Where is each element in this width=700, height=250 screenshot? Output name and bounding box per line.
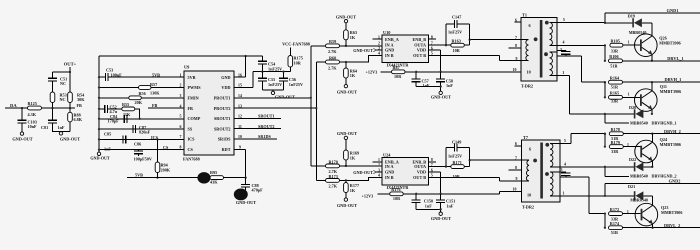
wire OUT B to T1 pin9 bbox=[429, 55, 521, 60]
wire U10 ENB_B stub bbox=[429, 38, 436, 40]
svg-text:10R: 10R bbox=[453, 174, 461, 179]
svg-text:1nF25V: 1nF25V bbox=[268, 82, 282, 87]
svg-text:C147: C147 bbox=[452, 15, 461, 20]
svg-text:GND-OUT: GND-OUT bbox=[275, 94, 295, 99]
svg-text:MBR0540: MBR0540 bbox=[630, 120, 648, 125]
svg-text:R95: R95 bbox=[210, 170, 217, 175]
svg-text:VDD: VDD bbox=[417, 170, 426, 175]
wire R55 branch row bbox=[99, 108, 105, 110]
svg-text:9: 9 bbox=[516, 57, 518, 61]
capacitor C57 bbox=[415, 72, 417, 79]
svg-text:10R: 10R bbox=[294, 61, 302, 66]
svg-text:51R: 51R bbox=[611, 84, 619, 89]
wire row1 5VB bbox=[99, 76, 105, 78]
svg-text:R163: R163 bbox=[452, 39, 461, 44]
svg-text:2: 2 bbox=[378, 41, 380, 45]
svg-text:4.3K: 4.3K bbox=[28, 112, 37, 117]
svg-text:VDD: VDD bbox=[417, 48, 426, 53]
wire pin4 to R106 bbox=[604, 45, 606, 60]
wire PROUT1 vertical bus bbox=[310, 46, 312, 166]
T7 primary winding bbox=[522, 159, 530, 161]
T1 secondary winding lower bbox=[550, 51, 558, 53]
wire Q23 emitter down bbox=[652, 224, 654, 228]
wire IN A row bbox=[311, 45, 382, 47]
wire row8 CS bbox=[99, 149, 184, 151]
resistor R55 bbox=[122, 107, 135, 111]
transistor Q26 bbox=[635, 34, 658, 57]
junction R164 feed bbox=[604, 81, 606, 83]
svg-text:D22: D22 bbox=[629, 157, 636, 162]
resistor R178 bbox=[604, 133, 606, 135]
svg-text:COMP: COMP bbox=[188, 116, 201, 121]
svg-text:9: 9 bbox=[516, 177, 518, 181]
svg-text:1nF: 1nF bbox=[446, 203, 453, 208]
svg-text:200K: 200K bbox=[161, 167, 171, 172]
wire R172/R174 tie bbox=[604, 214, 606, 228]
svg-text:GND-OUT: GND-OUT bbox=[353, 170, 373, 175]
svg-text:10R: 10R bbox=[394, 74, 402, 79]
svg-text:VDD: VDD bbox=[221, 85, 230, 90]
component R95 pad blob bbox=[197, 172, 210, 183]
svg-text:1nF: 1nF bbox=[446, 83, 453, 88]
svg-text:GND: GND bbox=[385, 170, 394, 175]
junction pin5/GND1 bbox=[604, 22, 606, 24]
svg-text:ICS: ICS bbox=[188, 137, 196, 142]
svg-text:FAN7688: FAN7688 bbox=[183, 157, 200, 162]
svg-text:6.8K: 6.8K bbox=[74, 117, 83, 122]
resistor R164 bbox=[609, 80, 623, 84]
svg-text:33R: 33R bbox=[611, 149, 619, 154]
svg-text:10: 10 bbox=[513, 68, 517, 72]
svg-text:NC: NC bbox=[60, 97, 66, 102]
svg-text:R164: R164 bbox=[610, 76, 620, 81]
svg-text:C86: C86 bbox=[134, 142, 141, 147]
svg-text:2.7K: 2.7K bbox=[328, 49, 337, 54]
resistor R64 bbox=[345, 61, 347, 63]
svg-text:R57: R57 bbox=[150, 82, 157, 87]
svg-text:51R: 51R bbox=[611, 230, 619, 235]
svg-text:MMBT3906: MMBT3906 bbox=[659, 41, 680, 46]
resistor R179 bbox=[609, 145, 623, 149]
svg-text:GND-OUT: GND-OUT bbox=[90, 156, 110, 161]
resistor R170 bbox=[326, 164, 340, 168]
svg-text:33R: 33R bbox=[611, 48, 619, 53]
svg-text:R125: R125 bbox=[28, 101, 37, 106]
resistor R176 bbox=[378, 193, 390, 195]
wire top ground run to pin16 bbox=[99, 55, 262, 57]
svg-text:R178: R178 bbox=[611, 127, 620, 132]
svg-text:R87: R87 bbox=[393, 65, 400, 70]
resistor R175 bbox=[289, 48, 291, 56]
wire SROUT2 stub bbox=[234, 128, 281, 130]
svg-text:SROUT2: SROUT2 bbox=[214, 126, 231, 131]
capacitor C86 bbox=[137, 150, 139, 151]
wire Q24 collector up bbox=[651, 134, 653, 143]
junction D20 row bbox=[604, 113, 606, 115]
wire U24 VDD to rail bbox=[429, 172, 441, 194]
wire row6 SS bbox=[99, 128, 184, 130]
resistor R173 bbox=[326, 179, 340, 183]
T1 secondary winding upper bbox=[550, 21, 558, 23]
capacitor C54 bbox=[261, 56, 263, 61]
resistor R174 bbox=[609, 226, 623, 230]
diode D22 bbox=[634, 162, 636, 171]
svg-text:C81: C81 bbox=[41, 125, 48, 130]
wire R178/R179 tie bbox=[604, 134, 606, 147]
capacitor C103 bbox=[21, 108, 23, 120]
svg-text:T7: T7 bbox=[523, 135, 529, 140]
svg-text:100nF: 100nF bbox=[111, 72, 123, 77]
svg-text:5: 5 bbox=[564, 139, 566, 143]
T7 secondary winding lower bbox=[550, 171, 560, 173]
svg-text:R165: R165 bbox=[610, 91, 619, 96]
resistor R60 bbox=[326, 60, 340, 64]
svg-text:2: 2 bbox=[378, 163, 380, 167]
ground GND-OUT bus bottom bbox=[97, 152, 100, 155]
svg-text:4: 4 bbox=[378, 52, 380, 56]
wire PROUT2 vertical bus bbox=[315, 62, 317, 180]
svg-text:7: 7 bbox=[515, 36, 517, 40]
capacitor C58 bbox=[440, 72, 442, 79]
svg-text:C149: C149 bbox=[452, 140, 461, 145]
svg-text:1: 1 bbox=[628, 41, 630, 45]
wire GND2 rail bbox=[605, 183, 700, 196]
resistor R177 bbox=[345, 179, 347, 181]
svg-text:R176: R176 bbox=[391, 187, 400, 192]
capacitor C52 bbox=[105, 105, 108, 113]
svg-text:5: 5 bbox=[563, 18, 565, 22]
ic U10 IX4423NTR body bbox=[382, 35, 429, 63]
capacitor C85 bbox=[123, 135, 126, 143]
svg-text:DRVH_1: DRVH_1 bbox=[665, 77, 682, 82]
svg-text:GND-OUT: GND-OUT bbox=[12, 136, 32, 141]
svg-text:DRVL_1: DRVL_1 bbox=[667, 56, 683, 61]
svg-text:1nF: 1nF bbox=[425, 203, 432, 208]
svg-text:+12V3: +12V3 bbox=[366, 70, 378, 75]
wire D19 row bbox=[605, 22, 632, 24]
svg-text:PROUT1: PROUT1 bbox=[214, 96, 231, 101]
wire U24 ENB_B stub bbox=[429, 161, 436, 163]
svg-text:FB: FB bbox=[77, 103, 83, 108]
wire U10 GND pin3 bbox=[376, 49, 383, 51]
wire PROUT1 net bbox=[234, 97, 311, 99]
svg-text:DRVH_2: DRVH_2 bbox=[664, 129, 681, 134]
svg-text:DA: DA bbox=[10, 103, 17, 108]
wire Q11 emitter down bbox=[651, 109, 653, 114]
svg-text:ENB_B: ENB_B bbox=[413, 37, 427, 42]
capacitor C84 bbox=[124, 115, 127, 123]
svg-text:5VB: 5VB bbox=[152, 73, 160, 78]
svg-text:100pF50V: 100pF50V bbox=[134, 157, 152, 162]
wire ground bus vertical bbox=[98, 56, 100, 152]
svg-text:OUTA: OUTA bbox=[414, 164, 426, 169]
svg-text:GND-OUT: GND-OUT bbox=[431, 216, 451, 221]
wire T1 pin4 row bbox=[557, 44, 605, 46]
svg-text:GND-OUT: GND-OUT bbox=[337, 203, 357, 208]
svg-text:VCC-FAN7688: VCC-FAN7688 bbox=[282, 42, 310, 47]
diode D20 bbox=[634, 109, 636, 118]
svg-text:4: 4 bbox=[180, 104, 182, 108]
resistor R53 bbox=[50, 92, 55, 103]
wire OUT+ to divider bbox=[69, 67, 71, 92]
wire Q24 emitter down bbox=[651, 161, 653, 167]
svg-text:1nF: 1nF bbox=[104, 146, 111, 151]
T1 primary polarity dot bbox=[534, 37, 538, 41]
wire PROUT2 net bbox=[234, 107, 316, 109]
svg-text:7: 7 bbox=[515, 156, 517, 160]
svg-text:7: 7 bbox=[180, 135, 182, 139]
svg-text:R179: R179 bbox=[611, 140, 620, 145]
svg-text:SR1DS: SR1DS bbox=[258, 134, 271, 139]
resistor R87 bbox=[381, 71, 392, 73]
T7 secondary winding upper bbox=[550, 142, 560, 144]
resistor R88 bbox=[69, 108, 71, 112]
T7 lower secondary polarity dot bbox=[545, 172, 549, 176]
svg-text:820nF: 820nF bbox=[139, 130, 151, 135]
svg-text:10: 10 bbox=[513, 188, 517, 192]
T1 primary winding bbox=[521, 39, 529, 41]
svg-text:1: 1 bbox=[627, 210, 629, 214]
svg-text:SROUT2: SROUT2 bbox=[258, 124, 275, 129]
diode D19 bbox=[632, 18, 634, 27]
resistor R125 bbox=[28, 106, 42, 110]
svg-text:4: 4 bbox=[378, 174, 380, 178]
svg-text:30K: 30K bbox=[77, 97, 85, 102]
transistor Q23 bbox=[635, 203, 658, 226]
wire RDT pin9 bbox=[234, 149, 246, 177]
svg-text:IN A: IN A bbox=[385, 164, 394, 169]
svg-text:FB: FB bbox=[152, 103, 158, 108]
capacitor C149 bbox=[446, 148, 454, 167]
transistor Q24 bbox=[635, 140, 658, 163]
svg-text:2.7K: 2.7K bbox=[328, 65, 337, 70]
capacitor C51 bbox=[48, 78, 57, 81]
svg-text:R56: R56 bbox=[139, 91, 146, 96]
capacitor C56 bbox=[283, 72, 285, 78]
wire U24 OUTA to T7 pin7 bbox=[429, 166, 451, 168]
resistor R105 bbox=[610, 43, 623, 47]
wire T7 pin3 stub with cap bbox=[560, 171, 566, 173]
T7 upper secondary polarity dot bbox=[545, 143, 549, 147]
ground GND-OUT below C57/C58 bbox=[416, 87, 441, 92]
svg-text:R171: R171 bbox=[453, 160, 462, 165]
svg-text:6: 6 bbox=[529, 146, 531, 151]
svg-text:20K: 20K bbox=[135, 100, 143, 105]
transistor Q11 bbox=[635, 89, 658, 112]
svg-text:GND: GND bbox=[385, 48, 394, 53]
resistor R95 bbox=[210, 176, 224, 180]
resistor R163 bbox=[451, 43, 465, 47]
wire U24 ENB_A stub bbox=[373, 161, 382, 163]
T1 upper secondary polarity dot bbox=[545, 21, 549, 25]
ground GND-OUT below C81/R88 bbox=[59, 132, 62, 135]
svg-text:1: 1 bbox=[627, 143, 629, 147]
svg-text:DRVHGND_1: DRVHGND_1 bbox=[652, 120, 677, 125]
wire U24 IN A row bbox=[311, 165, 382, 167]
svg-text:170pF: 170pF bbox=[108, 119, 120, 124]
wire U9 GND pin16 bbox=[234, 56, 246, 77]
wire row4 FB bbox=[148, 107, 184, 109]
wire U10 ENB_A stub bbox=[373, 38, 382, 40]
svg-text:MMBT3906: MMBT3906 bbox=[660, 142, 681, 147]
resistor R63 bbox=[345, 23, 347, 30]
svg-text:10R: 10R bbox=[453, 48, 461, 53]
T1 lower secondary polarity dot bbox=[544, 52, 548, 56]
svg-text:PWMS: PWMS bbox=[188, 85, 202, 90]
svg-text:R170: R170 bbox=[329, 159, 338, 164]
svg-text:43K: 43K bbox=[210, 180, 218, 185]
capacitor C87 bbox=[133, 125, 136, 133]
resistor R172 bbox=[609, 212, 623, 216]
svg-text:2: 2 bbox=[180, 84, 182, 88]
svg-text:GND2: GND2 bbox=[669, 178, 681, 183]
svg-text:GND-OUT: GND-OUT bbox=[337, 90, 357, 95]
svg-text:U10: U10 bbox=[383, 30, 390, 35]
capacitor C81 bbox=[52, 108, 54, 120]
svg-text:IN B: IN B bbox=[385, 175, 394, 180]
T7 primary polarity dot bbox=[533, 159, 537, 163]
svg-text:D19: D19 bbox=[628, 13, 635, 18]
svg-text:R59: R59 bbox=[329, 39, 336, 44]
svg-text:10nF: 10nF bbox=[28, 124, 38, 129]
capacitor C150 bbox=[415, 194, 417, 200]
wire SR1DS stub bbox=[234, 138, 277, 140]
svg-text:1K: 1K bbox=[350, 73, 356, 78]
wire T1 pin3 stub with cap bbox=[557, 50, 566, 52]
svg-text:T-DR2: T-DR2 bbox=[522, 204, 534, 209]
wire VDD rail bbox=[253, 71, 290, 73]
wire T1 pin6 stub bbox=[515, 21, 522, 23]
svg-text:GND-OUT: GND-OUT bbox=[236, 200, 256, 205]
resistor R94 bbox=[156, 138, 158, 140]
wire T7 pin2 route bbox=[560, 177, 605, 214]
capacitor C88 bbox=[245, 178, 247, 184]
svg-text:GND: GND bbox=[221, 75, 230, 80]
svg-text:GND-OUT: GND-OUT bbox=[337, 131, 357, 136]
resistor R59 bbox=[326, 44, 340, 48]
svg-text:1: 1 bbox=[563, 192, 565, 196]
svg-text:U9: U9 bbox=[184, 64, 190, 69]
node DA input wire bbox=[5, 107, 75, 109]
svg-text:3: 3 bbox=[180, 94, 182, 98]
svg-text:R174: R174 bbox=[610, 221, 620, 226]
svg-text:GND-OUT: GND-OUT bbox=[336, 14, 356, 19]
svg-text:1nF25V: 1nF25V bbox=[268, 67, 282, 72]
svg-text:R105: R105 bbox=[611, 39, 620, 44]
wire T7 pin6 stub bbox=[515, 145, 522, 147]
wire T1 pin2 route bbox=[557, 56, 605, 82]
svg-text:MMBT3906: MMBT3906 bbox=[660, 89, 681, 94]
svg-text:GND-OUT: GND-OUT bbox=[353, 48, 373, 53]
wire row2 PWMS bbox=[99, 87, 184, 89]
svg-text:T1: T1 bbox=[522, 13, 527, 18]
svg-text:GND1: GND1 bbox=[667, 8, 679, 13]
wire SROUT1 stub bbox=[234, 117, 281, 119]
transformer T1 body bbox=[521, 18, 557, 82]
wire Q11 collector up bbox=[651, 82, 653, 91]
wire T1 pin8 stub bbox=[509, 47, 522, 49]
svg-text:RDT: RDT bbox=[222, 147, 231, 152]
svg-text:FMIN: FMIN bbox=[188, 96, 199, 101]
svg-text:D20: D20 bbox=[629, 105, 636, 110]
svg-text:470pF: 470pF bbox=[252, 188, 264, 193]
svg-text:+12V3: +12V3 bbox=[362, 193, 374, 198]
svg-text:5VB: 5VB bbox=[135, 173, 143, 178]
svg-text:DRVL_2: DRVL_2 bbox=[664, 223, 680, 228]
junction DA/C103 bbox=[21, 107, 23, 109]
svg-text:1nF: 1nF bbox=[58, 125, 65, 130]
wire OUTA to T1 pin7 bbox=[429, 44, 451, 46]
svg-text:SROUT1: SROUT1 bbox=[214, 116, 231, 121]
transformer T7 body bbox=[522, 140, 561, 202]
T7 core bbox=[540, 143, 543, 199]
wire T1 pin1 route bbox=[557, 76, 634, 114]
diode D21 bbox=[634, 191, 636, 200]
svg-text:10: 10 bbox=[527, 69, 531, 74]
wire U24 IN B row bbox=[316, 177, 382, 180]
svg-text:1: 1 bbox=[628, 93, 630, 97]
svg-text:1nF25V: 1nF25V bbox=[448, 153, 462, 158]
svg-text:8: 8 bbox=[180, 146, 182, 150]
svg-text:10R: 10R bbox=[393, 196, 401, 201]
ground GND-OUT below C150/C151 bbox=[416, 209, 441, 212]
op-amp U9 FAN7688 body bbox=[184, 71, 234, 155]
svg-text:6: 6 bbox=[529, 23, 531, 28]
svg-text:SS: SS bbox=[188, 126, 193, 131]
resistor R56 bbox=[129, 96, 142, 100]
svg-text:1K: 1K bbox=[350, 188, 356, 193]
wire IN B row bbox=[316, 55, 382, 62]
resistor R171 bbox=[451, 165, 465, 169]
svg-text:1K: 1K bbox=[350, 35, 356, 40]
wire T7 pin8 stub bbox=[509, 169, 522, 171]
capacitor C55 bbox=[261, 72, 263, 78]
resistor R169 bbox=[345, 140, 347, 150]
svg-text:R173: R173 bbox=[329, 174, 338, 179]
svg-text:IN B: IN B bbox=[385, 53, 394, 58]
ground GND-OUT decoupling bbox=[262, 90, 283, 91]
svg-text:T-DR2: T-DR2 bbox=[521, 83, 533, 88]
svg-text:1K: 1K bbox=[350, 155, 356, 160]
resistor R165 bbox=[609, 95, 623, 99]
svg-text:MBR0540: MBR0540 bbox=[630, 198, 648, 203]
svg-text:10: 10 bbox=[527, 193, 531, 198]
svg-text:OUT B: OUT B bbox=[413, 53, 426, 58]
svg-text:33R: 33R bbox=[611, 99, 619, 104]
svg-text:C85: C85 bbox=[104, 131, 111, 136]
svg-text:5: 5 bbox=[180, 115, 182, 119]
svg-text:130K: 130K bbox=[150, 91, 160, 96]
svg-text:CS: CS bbox=[163, 145, 169, 150]
svg-text:6: 6 bbox=[180, 125, 182, 129]
wire D22 anode to emitter bbox=[643, 166, 652, 168]
wire GND1 rail bbox=[605, 13, 700, 23]
svg-text:FB: FB bbox=[188, 106, 194, 111]
ground GND-OUT blob bbox=[234, 189, 248, 201]
wire T7 pin4 row to D22 bbox=[560, 166, 634, 168]
wire U24 GND pin3 bbox=[376, 171, 383, 173]
svg-text:R60: R60 bbox=[329, 55, 336, 60]
wire T7 pin1 row to D21 bbox=[560, 195, 634, 197]
svg-text:1: 1 bbox=[180, 73, 182, 77]
svg-text:NC: NC bbox=[60, 81, 66, 86]
svg-text:PROUT2: PROUT2 bbox=[214, 106, 231, 111]
wire T1 pin5 row bbox=[557, 21, 605, 23]
svg-text:51R: 51R bbox=[610, 63, 618, 68]
svg-text:R106: R106 bbox=[609, 54, 618, 59]
svg-text:R172: R172 bbox=[610, 207, 619, 212]
svg-text:MBR0540: MBR0540 bbox=[630, 174, 648, 179]
